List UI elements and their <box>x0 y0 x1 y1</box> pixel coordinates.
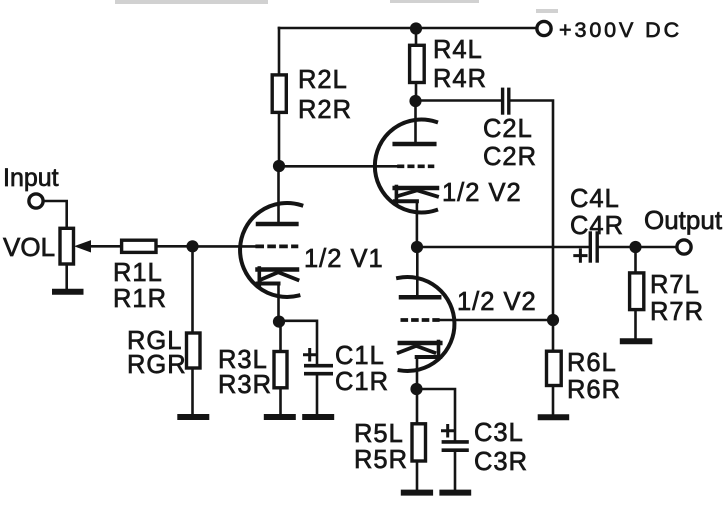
wire to C2 <box>416 99 501 102</box>
grid (dashed) <box>397 164 434 168</box>
svg-text:R3L: R3L <box>218 346 268 374</box>
envelope <box>398 277 454 371</box>
svg-text:R4L: R4L <box>433 36 483 64</box>
node: output / R7 <box>629 241 641 253</box>
svg-text:C4L: C4L <box>570 185 620 213</box>
resistor R7L/R7R <box>630 247 704 338</box>
terminal +300V DC <box>537 21 551 35</box>
svg-text:R6L: R6L <box>567 349 617 377</box>
node: R4 bottom / V2 plate / C2 <box>409 95 421 107</box>
wire node to V1 <box>193 245 256 248</box>
svg-text:C4R: C4R <box>570 212 624 240</box>
triode U: 1/2 V1 <box>240 166 384 322</box>
svg-text:+300V DC: +300V DC <box>559 18 682 42</box>
wire node to C3 <box>417 389 456 440</box>
svg-text:C2L: C2L <box>483 115 533 143</box>
plate <box>395 142 435 147</box>
svg-text:R7L: R7L <box>650 271 700 299</box>
wire: lower V2 grid to node <box>440 319 553 322</box>
potentiometer VOL <box>3 228 122 289</box>
svg-text:1/2 V1: 1/2 V1 <box>304 245 384 273</box>
ground (R6) <box>541 414 567 420</box>
wire input to pot <box>43 201 67 228</box>
svg-text:1/2 V2: 1/2 V2 <box>442 179 522 207</box>
envelope <box>240 203 301 297</box>
ground (R7) <box>623 338 650 344</box>
svg-text:1/2 V2: 1/2 V2 <box>457 288 537 316</box>
svg-text:Output: Output <box>644 205 723 235</box>
node: lower grid / R6 / C2 <box>547 314 559 326</box>
node: lower cathode / R5 / C3 <box>410 383 422 395</box>
wire C2 to lower grid node <box>511 101 553 321</box>
svg-text:C1L: C1L <box>335 342 385 370</box>
ground (C3) <box>442 490 468 496</box>
triode U: 1/2 V2 lower <box>398 247 537 389</box>
wire C4 to output <box>599 246 677 249</box>
ground (R5) <box>404 490 430 496</box>
scan smudge top <box>117 1 556 11</box>
node: grid of V1 <box>186 240 198 252</box>
ground (C1) <box>305 414 331 420</box>
ground (pot) <box>55 289 81 295</box>
node: V1 cathode <box>273 316 285 328</box>
svg-text:R3R: R3R <box>218 371 272 399</box>
svg-text:C2R: C2R <box>483 143 537 171</box>
ground (R3) <box>267 414 293 420</box>
resistor R6L/R6R <box>547 320 622 414</box>
svg-text:R5R: R5R <box>354 446 408 474</box>
svg-text:R2L: R2L <box>298 66 348 94</box>
resistor RGL/RGR <box>127 246 200 414</box>
plate <box>401 295 439 300</box>
wire: output line to C4 <box>417 246 588 249</box>
resistor R5L/R5R <box>354 389 426 490</box>
svg-text:VOL: VOL <box>3 232 55 262</box>
svg-text:R6R: R6R <box>567 376 621 404</box>
wire cathode node to C1 <box>279 321 317 364</box>
capacitor C2L/C2R <box>483 89 537 171</box>
resistor R4L/R4R <box>410 28 487 101</box>
capacitor C4L/C4R (electrolytic) <box>570 185 624 261</box>
node: V1 plate / R2 <box>273 160 285 172</box>
svg-text:RGR: RGR <box>127 351 187 379</box>
cathode <box>395 186 437 191</box>
svg-text:R4R: R4R <box>433 65 487 93</box>
plate <box>258 222 296 227</box>
terminal Output <box>677 240 691 254</box>
svg-text:C3L: C3L <box>474 419 524 447</box>
plus sign <box>443 426 454 437</box>
svg-text:R1R: R1R <box>113 285 167 313</box>
cathode <box>400 341 441 346</box>
plus sign <box>575 250 586 261</box>
svg-text:R2R: R2R <box>298 96 352 124</box>
resistor R3L/R3R <box>218 322 287 414</box>
svg-text:R5L: R5L <box>354 420 404 448</box>
capacitor C1L/C1R (electrolytic) <box>305 342 390 414</box>
svg-text:Input: Input <box>3 164 59 192</box>
triode U: 1/2 V2 upper <box>375 101 522 247</box>
wire V1 plate node to V2 grid <box>279 165 397 168</box>
svg-text:C3R: C3R <box>474 448 528 476</box>
plus sign <box>305 350 316 361</box>
svg-text:C1R: C1R <box>335 368 389 396</box>
wiper arrow <box>74 240 91 252</box>
grid (dashed) <box>255 245 298 249</box>
svg-text:R1L: R1L <box>113 259 163 287</box>
wire: top supply rail <box>279 27 537 30</box>
svg-text:R7R: R7R <box>650 298 704 326</box>
resistor R1L/R1R <box>113 240 193 313</box>
capacitor C3L/C3R (electrolytic) <box>443 419 529 490</box>
cathode <box>258 267 298 272</box>
ground (RG) <box>180 414 206 420</box>
envelope <box>375 120 436 213</box>
resistor R2L/R2R <box>272 28 352 166</box>
node: SRPP output (V2 upper cathode / V2 lower plate) <box>411 241 423 253</box>
node: rail to R4 junction <box>410 22 422 34</box>
grid (dashed) <box>401 318 440 322</box>
